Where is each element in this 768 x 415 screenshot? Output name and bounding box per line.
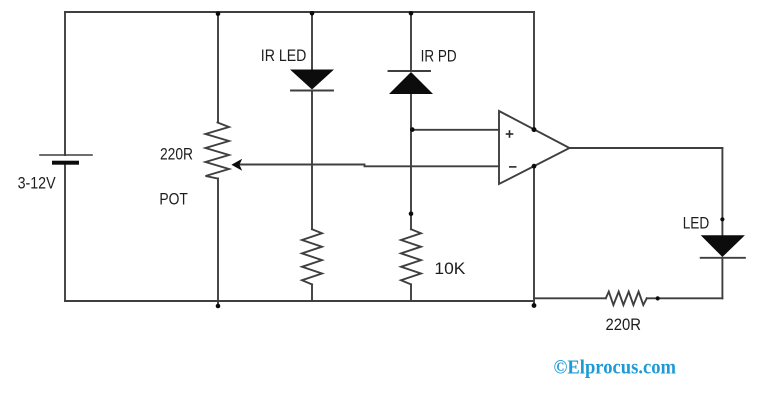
op-amp plus input sign (506, 133, 514, 135)
IR LED cathode bar (291, 90, 333, 92)
svg-text:220R: 220R (606, 316, 642, 334)
wire op-amp V+ drop (533, 12, 535, 130)
wire IR PD column top (410, 12, 412, 71)
node IR PD to non-inverting input (410, 127, 415, 132)
node right of 220R resistor (656, 296, 660, 300)
svg-text:IR PD: IR PD (421, 48, 457, 66)
potentiometer R 220R zigzag (206, 123, 230, 179)
svg-text:3-12V: 3-12V (18, 175, 56, 193)
svg-text:10K: 10K (434, 260, 465, 278)
wire IR LED resistor stub (311, 284, 313, 301)
wire 10K resistor stub (410, 284, 412, 301)
op-amp U1 triangle (499, 111, 570, 184)
resistor 10K zigzag (401, 229, 421, 284)
resistor (IR LED column) zigzag (302, 229, 322, 284)
wire IR LED column middle (311, 91, 313, 230)
wire wiper to inverting input (240, 165, 500, 167)
LED diode triangle (701, 235, 745, 257)
svg-text:IR LED: IR LED (261, 47, 307, 65)
wire op-amp output (570, 147, 723, 149)
potentiometer wiper arrow (231, 159, 242, 171)
IR PD cathode bar (389, 70, 431, 72)
wire bottom rail (65, 300, 534, 302)
node op-amp V+ on triangle edge (532, 127, 537, 132)
wire IR LED column top (311, 12, 313, 70)
wire top rail (65, 11, 534, 13)
op-amp minus input sign (509, 166, 517, 168)
wire LED cathode down (721, 258, 723, 299)
IR LED diode triangle (290, 70, 334, 90)
svg-text:©Elprocus.com: ©Elprocus.com (554, 356, 677, 378)
node op-amp V- on triangle edge (532, 164, 537, 169)
wire bottom right segment left of 220R (534, 297, 606, 299)
node IR PD column mid (409, 211, 414, 216)
node pot column bottom rail (216, 304, 221, 309)
node top of pot column (216, 11, 221, 16)
node op-amp V- at bottom rail (532, 303, 537, 308)
wire op-amp V- drop (533, 166, 535, 305)
wire bottom right segment right of 220R (647, 297, 723, 299)
wire battery bottom (64, 164, 66, 302)
wire pot column top (217, 12, 219, 123)
resistor 220R (output) zigzag (606, 292, 647, 305)
node LED anode (720, 217, 724, 221)
battery V1 negative plate (52, 161, 79, 165)
node top of IR LED column (310, 11, 315, 16)
wire battery top (64, 12, 66, 155)
battery V1 positive plate (40, 154, 92, 156)
svg-text:POT: POT (159, 191, 188, 209)
wire pot column bottom (217, 179, 219, 306)
IR PD photodiode triangle (389, 72, 433, 94)
wire LED column (721, 148, 723, 235)
wire non-inverting input (411, 129, 499, 131)
svg-text:LED: LED (683, 215, 710, 233)
LED cathode bar (701, 257, 745, 259)
node top of IR PD column (409, 11, 414, 16)
wire IR PD column middle (410, 94, 412, 229)
svg-text:220R: 220R (160, 146, 193, 164)
